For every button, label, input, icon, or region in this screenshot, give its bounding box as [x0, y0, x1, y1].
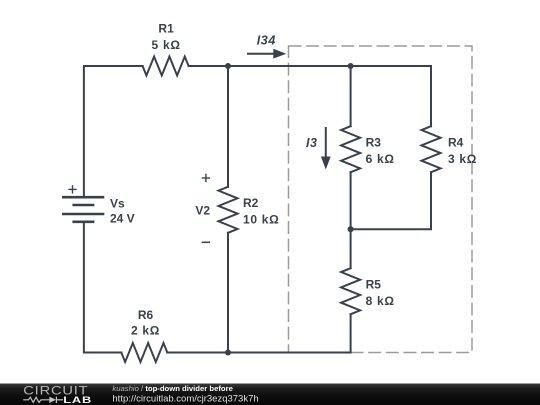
svg-text:R6: R6 [138, 308, 154, 322]
wire from R1 right lead through node at R2 top to node A [189, 65, 351, 67]
wire from Vs - terminal down to bottom rail [83, 222, 85, 353]
V2 minus sign [202, 241, 210, 243]
svg-text:I34: I34 [257, 33, 276, 47]
resistor R3 (zigzag body) [341, 126, 360, 172]
node junction dot at bottom rail / R2 [225, 349, 231, 355]
node A junction dot at top rail / R3 [348, 63, 354, 69]
wire bottom rail left segment to R6 [84, 352, 121, 354]
resistor R2 (zigzag body) [219, 187, 238, 233]
svg-text:R1: R1 [158, 22, 174, 36]
svg-text:http://circuitlab.com/cjr3ezq3: http://circuitlab.com/cjr3ezq373k7h [112, 393, 258, 404]
wire R3 bottom lead to node B [350, 172, 352, 229]
resistor R4 (zigzag body) [422, 126, 441, 172]
wire bottom rail from R6 right lead to R5 bottom [167, 352, 350, 354]
resistor R1 (zigzag body) [143, 57, 189, 76]
svg-text:8 kΩ: 8 kΩ [366, 294, 395, 308]
svg-text:R4: R4 [448, 136, 464, 150]
node junction dot at top rail / R2 [225, 63, 231, 69]
node B junction dot R3/R4/R5 [348, 226, 354, 232]
svg-text:R5: R5 [366, 278, 382, 292]
wire from node A to R4 top lead [351, 66, 431, 126]
svg-text:V2: V2 [195, 204, 210, 218]
svg-text:R3: R3 [366, 136, 382, 150]
wire R4 bottom lead left to node B [351, 172, 431, 229]
svg-text:I3: I3 [306, 136, 318, 150]
current arrow I3 [321, 127, 331, 170]
svg-text:6 kΩ: 6 kΩ [366, 152, 395, 166]
wire from Vs + terminal up and right to R1 left lead [84, 66, 143, 197]
svg-text:24 V: 24 V [110, 211, 135, 225]
svg-text:R2: R2 [243, 196, 259, 210]
dashed subcircuit box [289, 46, 473, 353]
wire R2 bottom lead to bottom rail [227, 233, 229, 353]
wire R2 top lead from top rail [227, 66, 229, 187]
wire R3 top lead [350, 66, 352, 126]
svg-text:5 kΩ: 5 kΩ [152, 38, 181, 52]
svg-text:Vs: Vs [110, 197, 125, 211]
footer watermark bar [0, 384, 540, 405]
resistor R6 (zigzag body) [121, 343, 167, 362]
voltage source Vs battery plates [62, 197, 104, 222]
svg-text:3 kΩ: 3 kΩ [448, 152, 477, 166]
resistor R5 (zigzag body) [341, 268, 360, 314]
current arrow I34 [247, 49, 286, 59]
wire node B to R5 top lead [350, 229, 352, 268]
svg-text:2 kΩ: 2 kΩ [131, 324, 160, 338]
wire R5 bottom lead to bottom rail [350, 314, 352, 352]
Vs plus sign [68, 185, 76, 193]
CircuitLab logo resistor squiggle and diode [23, 397, 63, 403]
V2 plus sign [202, 174, 210, 182]
svg-text:kuashio / top-down divider bef: kuashio / top-down divider before [112, 384, 233, 393]
svg-text:10 kΩ: 10 kΩ [243, 213, 279, 227]
svg-text:LAB: LAB [63, 396, 92, 405]
